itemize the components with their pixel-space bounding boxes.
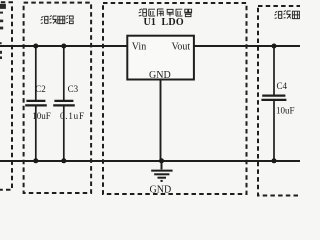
svg-text:10uF: 10uF — [32, 111, 51, 121]
svg-text:C3: C3 — [68, 84, 79, 94]
filter network box (right, cut at right edge) — [258, 6, 318, 196]
C2 top lead — [35, 46, 37, 100]
C3 bottom lead — [63, 107, 65, 161]
node: ground junction — [159, 158, 164, 163]
node: C4 bottom — [272, 158, 277, 163]
node: C4 top — [272, 44, 277, 49]
C2 bottom lead — [35, 107, 37, 161]
label 低压降稳压器 (fake CJK glyphs) — [139, 9, 192, 17]
svg-text:Vin: Vin — [132, 42, 146, 53]
svg-text:U1 LDO: U1 LDO — [144, 17, 184, 28]
regulator U1 body — [127, 36, 194, 80]
C2 plates — [26, 100, 45, 102]
node: C3 bottom — [61, 158, 66, 163]
wire: top rail right segment (Vout to output) — [194, 45, 300, 47]
wire: U1 GND pin to ground rail — [160, 80, 162, 161]
label 滤波网(络) (right filter box, cut at edge, fake CJK glyphs) — [274, 11, 299, 19]
left-edge cut-off text fragments — [0, 4, 5, 59]
node: C2 bottom — [33, 158, 38, 163]
capacitor C2 — [25, 46, 47, 161]
C3 plates — [54, 100, 73, 102]
svg-text:10uF: 10uF — [276, 106, 295, 116]
wire: top rail left segment (input to Vin) — [0, 45, 127, 47]
C4 plates — [262, 94, 285, 96]
C4 top lead — [273, 46, 275, 96]
left partial dashed box (cut at left edge) — [0, 2, 12, 190]
label 滤波网络 (left filter box, fake CJK glyphs) — [41, 16, 74, 24]
svg-text:C2: C2 — [35, 84, 46, 94]
LDO dashed box U1 — [103, 3, 247, 194]
filter network box (滤波网络, left) — [24, 3, 92, 193]
capacitor C4 — [261, 46, 286, 161]
node: C3 top — [61, 44, 66, 49]
wire: bottom ground rail — [0, 160, 300, 162]
C3 top lead — [63, 46, 65, 100]
svg-text:Vout: Vout — [172, 42, 191, 53]
svg-text:0.1uF: 0.1uF — [60, 111, 85, 121]
capacitor C3 — [53, 46, 75, 161]
svg-text:GND: GND — [149, 70, 171, 81]
node: C2 top — [33, 44, 38, 49]
C4 bottom lead — [273, 101, 275, 161]
svg-text:GND: GND — [150, 184, 172, 195]
ground symbol — [151, 161, 172, 181]
svg-text:C4: C4 — [277, 81, 288, 91]
